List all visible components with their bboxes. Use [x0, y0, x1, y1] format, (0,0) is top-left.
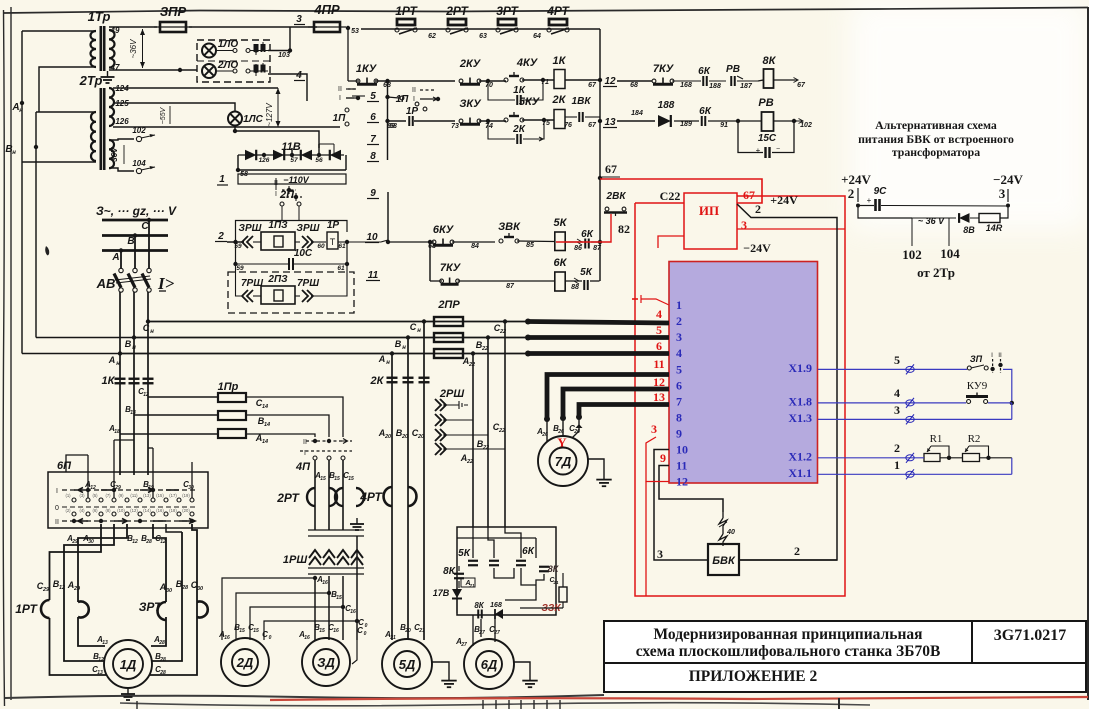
- svg-text:ИП: ИП: [699, 203, 719, 218]
- svg-text:13: 13: [130, 410, 136, 416]
- svg-text:2РТ: 2РТ: [445, 4, 469, 18]
- border frame bottom: [5, 695, 1088, 706]
- svg-text:(9): (9): [118, 493, 124, 498]
- wire X1.9 blue: [818, 353, 967, 374]
- svg-text:104: 104: [940, 246, 960, 261]
- label 3-phase: [96, 204, 177, 218]
- resistor 14R: [970, 206, 1008, 233]
- wire БВК right: [739, 559, 837, 561]
- svg-text:4: 4: [894, 386, 900, 400]
- loop В12: [64, 524, 114, 661]
- contacts 1К bank: [102, 375, 154, 387]
- svg-text:17В: 17В: [433, 588, 450, 598]
- svg-text:5К: 5К: [580, 267, 593, 278]
- svg-text:1Р: 1Р: [327, 220, 340, 231]
- svg-text:6: 6: [370, 112, 376, 123]
- wire rung1 b: [375, 80, 455, 82]
- svg-text:103: 103: [278, 52, 290, 59]
- svg-text:Т: Т: [330, 237, 336, 247]
- svg-text:67: 67: [743, 188, 755, 202]
- svg-text:28: 28: [181, 585, 189, 591]
- svg-text:28: 28: [145, 539, 152, 545]
- svg-text:(1): (1): [65, 493, 71, 498]
- node 5: [367, 91, 379, 102]
- labels С22 В22 А22 low: [460, 422, 505, 465]
- diode 17В: [433, 588, 462, 613]
- thermal 1РТ: [15, 600, 89, 618]
- fuse 4ПР: [308, 2, 346, 32]
- winding 2Тр tertiary: [109, 140, 114, 168]
- svg-text:8К: 8К: [443, 566, 456, 577]
- svg-text:3: 3: [296, 14, 302, 25]
- aux contact 1К: [488, 80, 543, 105]
- thermal contact 3РТ: [496, 4, 541, 40]
- svg-text:I: I: [275, 191, 277, 198]
- svg-text:5: 5: [676, 363, 682, 377]
- connector 7РШ right: [295, 264, 347, 302]
- node 12: [603, 76, 617, 87]
- svg-text:60: 60: [317, 243, 325, 250]
- wire 2П drops: [282, 206, 299, 221]
- node 10: [365, 232, 379, 243]
- svg-text:21: 21: [389, 635, 396, 641]
- doc number: [994, 627, 1066, 644]
- label Y red: [557, 435, 567, 450]
- node 67 label: [602, 162, 620, 177]
- svg-text:н: н: [386, 360, 390, 366]
- contact 2ВК: [604, 191, 627, 216]
- ground 1РШ: [350, 518, 364, 530]
- svg-text:8К: 8К: [474, 601, 484, 610]
- svg-text:13: 13: [102, 640, 108, 646]
- wires 1К to 1Пр: [108, 387, 218, 435]
- motor 2Д: [221, 638, 269, 686]
- svg-text:2Д: 2Д: [236, 655, 254, 670]
- svg-text:8: 8: [676, 411, 682, 425]
- svg-text:10: 10: [676, 443, 688, 457]
- wire step 430: [428, 240, 432, 281]
- svg-text:1РШ: 1РШ: [283, 554, 307, 566]
- loop box 1ПЗ top: [236, 221, 348, 243]
- svg-text:82: 82: [618, 222, 630, 236]
- svg-text:(12): (12): [130, 508, 138, 513]
- labels 6Д terms: [455, 625, 500, 648]
- wires 6Д: [473, 615, 495, 646]
- svg-text:0: 0: [55, 505, 59, 512]
- 6П rows: [55, 488, 196, 526]
- contacts 5К 6К: [458, 546, 549, 571]
- svg-text:13: 13: [653, 390, 665, 404]
- loop А29: [78, 524, 127, 646]
- svg-text:15: 15: [239, 628, 245, 634]
- svg-text:~127V: ~127V: [265, 103, 274, 127]
- phase line A: [102, 248, 168, 263]
- control block purple: [669, 262, 818, 484]
- label С22: [660, 189, 681, 203]
- svg-text:РВ: РВ: [758, 97, 773, 109]
- selector 2П: [274, 178, 302, 206]
- terminal 102: [132, 126, 155, 142]
- node 2: [215, 231, 227, 242]
- svg-text:Модернизированная принципиальн: Модернизированная принципиальная: [653, 626, 922, 643]
- svg-text:2ВК: 2ВК: [606, 191, 627, 202]
- label А21 box: [461, 578, 475, 588]
- motor 1Д: [104, 640, 152, 688]
- node 8: [367, 151, 379, 162]
- svg-text:3РТ: 3РТ: [496, 4, 519, 18]
- lamp box dashed: [197, 40, 270, 82]
- switch block 6П: [48, 460, 208, 528]
- svg-text:РВ: РВ: [726, 64, 740, 75]
- svg-text:R1: R1: [930, 433, 943, 445]
- border frame left outer: [3, 10, 4, 706]
- svg-text:64: 64: [533, 33, 541, 40]
- connector 7РШ left: [236, 264, 264, 302]
- svg-text:н: н: [402, 345, 406, 351]
- 6П arrows: [74, 488, 195, 524]
- thermal 4РТ 5Д: [359, 487, 416, 506]
- wire coil 8К in: [758, 80, 764, 81]
- svg-text:22: 22: [498, 428, 505, 434]
- svg-text:16: 16: [322, 580, 328, 586]
- contact 8К left: [443, 566, 464, 588]
- label +24V: [770, 193, 798, 207]
- svg-text:14R: 14R: [986, 223, 1003, 233]
- label 67 red: [743, 188, 755, 202]
- svg-text:−24V: −24V: [743, 241, 771, 255]
- svg-text:15: 15: [336, 595, 342, 601]
- wire 1Тр primary top: [22, 30, 96, 32]
- wire top to 4ПР: [189, 26, 317, 28]
- svg-text:16: 16: [304, 635, 310, 641]
- wire row 4: [268, 74, 307, 101]
- wire pin6 thick: [560, 389, 669, 421]
- svg-text:В: В: [125, 339, 132, 349]
- button 1КУ: [356, 63, 391, 89]
- svg-text:+: +: [756, 146, 761, 155]
- svg-text:12: 12: [653, 375, 665, 389]
- svg-text:2КУ: 2КУ: [459, 58, 482, 70]
- capacitor 9С: [856, 186, 1010, 211]
- labels А16 В15 С16 С0: [313, 575, 368, 629]
- label 11В: [281, 141, 300, 153]
- wiring 6Д box top: [457, 527, 536, 558]
- node 4: [294, 70, 305, 81]
- labels 2Д terms: [218, 623, 272, 641]
- svg-text:X1.1: X1.1: [788, 466, 812, 480]
- label от 2Тр: [917, 265, 955, 280]
- wire 7Д feeds: [547, 417, 583, 441]
- selector 1П marks: [338, 86, 360, 102]
- svg-text:29: 29: [42, 587, 50, 593]
- svg-text:8К: 8К: [763, 55, 777, 67]
- svg-text:II: II: [55, 519, 59, 526]
- terminal 102 alt: [902, 228, 922, 262]
- svg-text:ЗП: ЗП: [970, 354, 983, 364]
- svg-text:16: 16: [333, 628, 339, 634]
- svg-text:16: 16: [224, 635, 230, 641]
- resistor 33К: [520, 573, 567, 614]
- svg-text:1: 1: [676, 298, 682, 312]
- svg-text:85: 85: [526, 242, 534, 249]
- svg-text:67: 67: [588, 82, 597, 89]
- svg-text:68: 68: [389, 123, 397, 130]
- wire rung1 c: [479, 80, 554, 81]
- svg-text:АВ: АВ: [96, 276, 116, 291]
- svg-text:5: 5: [370, 91, 376, 102]
- wire 67 red: [600, 179, 762, 203]
- svg-text:7КУ: 7КУ: [653, 63, 675, 75]
- svg-text:5КУ: 5КУ: [519, 96, 541, 108]
- svg-text:питания БВК от встроенного: питания БВК от встроенного: [858, 132, 1014, 146]
- svg-text:63: 63: [479, 33, 487, 40]
- lamp 1ЛО: [202, 39, 238, 58]
- title block frame: [604, 621, 1086, 692]
- svg-text:9: 9: [676, 427, 682, 441]
- power supply ИП: [684, 193, 737, 249]
- svg-text:13: 13: [97, 670, 103, 676]
- wires 1К down: [114, 389, 153, 475]
- label В_н: [5, 144, 16, 156]
- capacitor 10С: [233, 242, 349, 272]
- svg-text:(20): (20): [182, 508, 190, 513]
- svg-text:6К: 6К: [698, 66, 711, 77]
- svg-text:А: А: [108, 355, 116, 365]
- svg-text:ЗВК: ЗВК: [498, 221, 521, 233]
- lamp 2ЛО: [202, 60, 238, 78]
- svg-text:7Д: 7Д: [555, 454, 572, 469]
- svg-text:14: 14: [262, 404, 268, 410]
- svg-text:28: 28: [159, 657, 166, 663]
- svg-text:14: 14: [264, 422, 270, 428]
- bridge box 58: [236, 155, 346, 178]
- svg-text:126: 126: [259, 157, 270, 164]
- contact РВ: [726, 64, 758, 90]
- svg-text:8В: 8В: [963, 225, 975, 235]
- svg-text:70: 70: [485, 82, 493, 89]
- svg-text:26: 26: [573, 429, 580, 435]
- svg-text:4: 4: [656, 307, 662, 321]
- contact 1П mid: [396, 94, 427, 111]
- svg-text:ПРИЛОЖЕНИЕ 2: ПРИЛОЖЕНИЕ 2: [689, 668, 818, 685]
- terminal 104 alt: [940, 228, 960, 261]
- svg-text:104: 104: [132, 159, 146, 168]
- svg-text:н: н: [132, 345, 136, 351]
- fuse 1Пр: [218, 381, 246, 438]
- svg-text:X1.2: X1.2: [788, 449, 812, 463]
- node 6: [367, 112, 379, 123]
- wire 57 down: [291, 148, 293, 155]
- svg-text:БВК: БВК: [712, 555, 736, 567]
- wire А_н left vertical: [20, 31, 120, 354]
- break symbol 40: [719, 512, 735, 546]
- resistor R1: [924, 433, 951, 462]
- loop С30: [150, 524, 197, 675]
- labels С14 В14 А14: [255, 398, 270, 445]
- contacts 2К bank: [370, 375, 430, 387]
- wire 9 to rung: [386, 192, 390, 244]
- wire 127 to selector: [278, 126, 340, 128]
- svg-text:ЗРШ: ЗРШ: [297, 223, 320, 234]
- svg-text:13: 13: [604, 117, 616, 128]
- svg-text:(6): (6): [92, 508, 98, 513]
- svg-text:(4): (4): [79, 508, 85, 513]
- svg-text:67: 67: [605, 162, 617, 176]
- label ~36V tertiary: [110, 145, 124, 166]
- wire pin3 thick: [525, 335, 669, 341]
- transformer 2Тр: [79, 73, 130, 170]
- wire 1ЛС bottom: [233, 126, 319, 149]
- svg-text:1ЛС: 1ЛС: [243, 114, 263, 125]
- connector ЗРШ right: [295, 223, 326, 250]
- svg-text:(5): (5): [92, 493, 98, 498]
- svg-text:2: 2: [794, 544, 800, 558]
- button 2КУ: [459, 58, 493, 89]
- svg-text:20: 20: [401, 434, 408, 440]
- label 3 БВК: [657, 547, 663, 561]
- svg-text:ЗД: ЗД: [317, 655, 335, 670]
- svg-text:102: 102: [902, 247, 922, 262]
- svg-text:22: 22: [482, 445, 489, 451]
- node 7: [367, 134, 379, 145]
- svg-text:22: 22: [468, 362, 475, 368]
- contacts 8К 168 bottom: [474, 601, 503, 619]
- svg-text:2ПЗ: 2ПЗ: [267, 274, 288, 285]
- wire R1 R2 join: [940, 457, 1012, 459]
- svg-text:~36V: ~36V: [129, 39, 138, 59]
- phase line B: [102, 233, 168, 247]
- connector ЗРШ left: [239, 223, 262, 248]
- label -24V alt: [993, 172, 1023, 202]
- wire pin7 thick: [576, 405, 669, 421]
- relay coil 2К: [552, 94, 572, 129]
- svg-text:~55V: ~55V: [160, 106, 167, 124]
- svg-text:3: 3: [999, 186, 1006, 201]
- bottom table ticks: [137, 698, 839, 709]
- svg-text:2: 2: [894, 441, 900, 455]
- svg-text:схема плоскошлифовального стан: схема плоскошлифовального станка ЗБ70В: [636, 643, 941, 660]
- lamp 1ЛС: [228, 112, 264, 126]
- svg-text:12: 12: [143, 392, 149, 398]
- thermal contact 2РТ: [445, 4, 487, 40]
- svg-text:1К: 1К: [553, 55, 567, 67]
- wire pin5 thick: [544, 375, 669, 423]
- svg-text:11: 11: [368, 270, 379, 281]
- svg-text:12: 12: [59, 585, 65, 591]
- wire 56 up: [318, 144, 320, 155]
- svg-text:С: С: [143, 323, 150, 333]
- wire 2Тр primary top: [36, 111, 96, 113]
- svg-text:+24V: +24V: [841, 172, 871, 187]
- alt lower branch: [858, 206, 949, 229]
- svg-text:3: 3: [657, 547, 663, 561]
- svg-text:21: 21: [468, 583, 475, 588]
- app text: [689, 668, 818, 685]
- svg-text:27: 27: [460, 642, 467, 648]
- wire red pin12: [646, 437, 669, 482]
- border frame top: [4, 8, 1088, 14]
- contact 6К r1: [672, 66, 726, 90]
- svg-text:20: 20: [417, 434, 424, 440]
- svg-text:(19): (19): [182, 493, 190, 498]
- svg-text:С: С: [410, 322, 417, 332]
- svg-text:30: 30: [166, 588, 172, 594]
- svg-text:(7): (7): [105, 493, 111, 498]
- svg-text:2: 2: [676, 314, 682, 328]
- measure ~36V: [129, 29, 145, 68]
- svg-text:4РТ: 4РТ: [546, 4, 570, 18]
- label 2 pin: [755, 202, 761, 216]
- svg-text:20: 20: [404, 628, 411, 634]
- ground 1Тр: [101, 71, 115, 83]
- title text: [636, 626, 941, 660]
- svg-text:61: 61: [337, 265, 345, 272]
- red wire numbers: [653, 307, 665, 404]
- ink mark: [45, 246, 49, 255]
- svg-text:(14): (14): [143, 508, 151, 513]
- svg-text:9: 9: [370, 188, 376, 199]
- labels А26 В26 С26: [536, 424, 580, 438]
- svg-text:II: II: [338, 86, 342, 93]
- relay coil 5К: [554, 217, 568, 251]
- svg-text:9: 9: [660, 451, 666, 465]
- wire rung 6КУ: [452, 242, 495, 250]
- svg-text:15С: 15С: [758, 133, 777, 144]
- svg-text:II: II: [303, 439, 307, 446]
- svg-text:1Тр: 1Тр: [88, 9, 111, 24]
- loop А30: [151, 524, 166, 646]
- contact 6К r2: [674, 106, 736, 129]
- svg-text:3: 3: [894, 403, 900, 417]
- wire secondary top: [109, 26, 157, 28]
- measure ~55V: [160, 106, 170, 124]
- svg-text:ЗКУ: ЗКУ: [459, 98, 482, 110]
- svg-text:(3): (3): [79, 493, 85, 498]
- svg-text:1КУ: 1КУ: [356, 63, 378, 75]
- svg-text:8: 8: [370, 151, 376, 162]
- wire pin2 thick: [525, 319, 669, 325]
- connector 2РШ: [435, 388, 505, 455]
- svg-text:2: 2: [217, 231, 224, 242]
- svg-text:61: 61: [338, 243, 346, 250]
- selector 4П: [295, 439, 352, 474]
- motor 3Д: [302, 638, 350, 686]
- contact 6К arrows: [565, 229, 602, 252]
- svg-text:15: 15: [348, 476, 354, 482]
- svg-text:5К: 5К: [458, 548, 471, 559]
- motor 5Д: [382, 639, 432, 689]
- svg-text:57: 57: [290, 157, 298, 164]
- wire X1.8 blue: [818, 386, 966, 408]
- svg-text:5: 5: [656, 323, 662, 337]
- svg-text:3G71.0217: 3G71.0217: [994, 627, 1066, 644]
- relay 1Р T: [327, 220, 388, 250]
- svg-text:2РТ: 2РТ: [276, 491, 300, 505]
- svg-text:2К: 2К: [370, 375, 385, 387]
- svg-text:12: 12: [90, 485, 96, 491]
- svg-text:15: 15: [334, 476, 340, 482]
- svg-text:5Д: 5Д: [399, 657, 416, 672]
- bus row С_н: [143, 319, 528, 335]
- contact ЗП: [967, 352, 1002, 373]
- svg-text:I>: I>: [157, 274, 175, 293]
- label 1РТ node: [21, 629, 23, 631]
- svg-text:4ПР: 4ПР: [313, 2, 340, 17]
- button 5КУ: [504, 96, 550, 127]
- svg-text:5: 5: [894, 353, 900, 367]
- ground 1Д: [121, 688, 135, 700]
- svg-text:2Тр: 2Тр: [79, 73, 103, 88]
